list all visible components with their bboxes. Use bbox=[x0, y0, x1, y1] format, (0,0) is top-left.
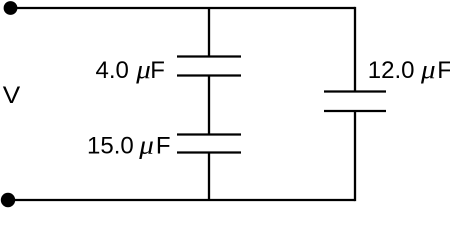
svg-text:4.0: 4.0 bbox=[96, 57, 129, 84]
svg-text:F: F bbox=[437, 57, 450, 84]
svg-text:F: F bbox=[156, 133, 171, 160]
svg-text:μ: μ bbox=[138, 130, 154, 159]
svg-text:V: V bbox=[3, 82, 21, 109]
svg-text:12.0: 12.0 bbox=[368, 57, 415, 84]
svg-text:μ: μ bbox=[135, 54, 151, 83]
svg-text:μ: μ bbox=[420, 55, 436, 84]
svg-text:F: F bbox=[150, 57, 165, 84]
svg-text:15.0: 15.0 bbox=[87, 133, 134, 160]
